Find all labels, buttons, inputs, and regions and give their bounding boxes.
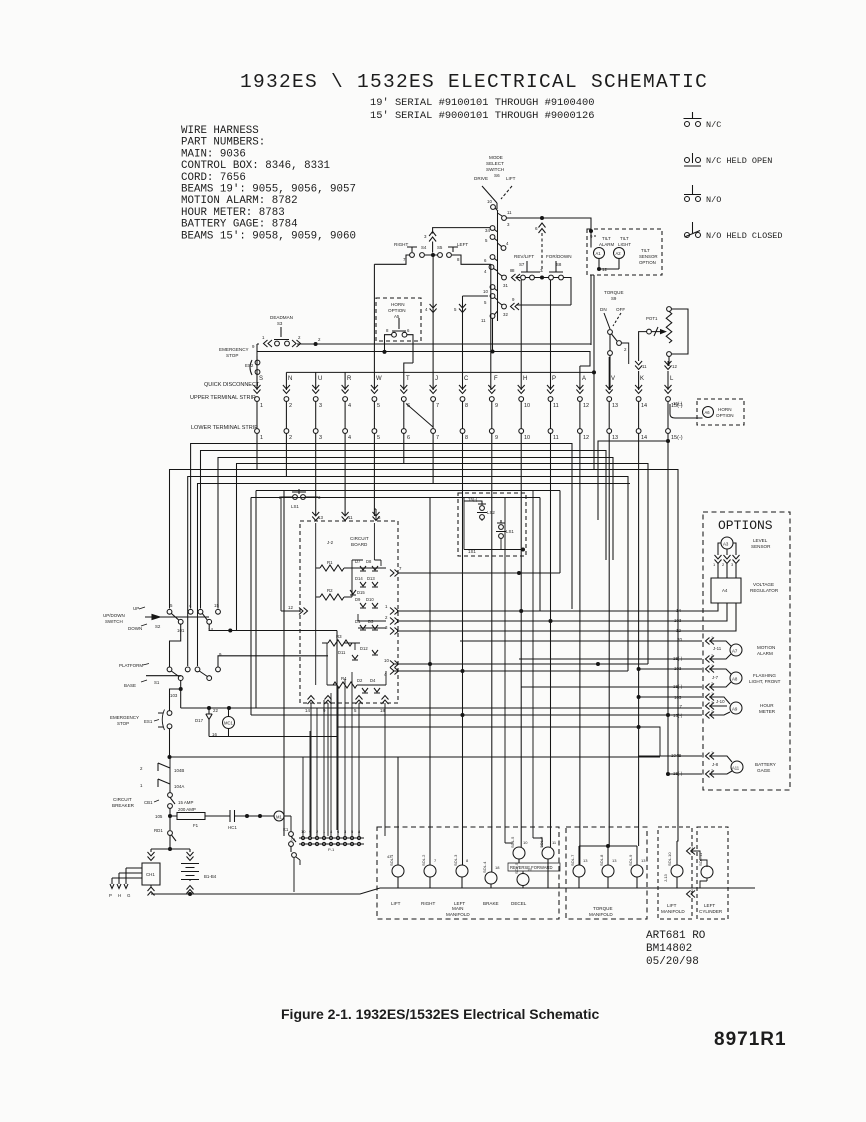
svg-text:FOR/DOWN: FOR/DOWN xyxy=(546,254,572,259)
svg-text:A2: A2 xyxy=(616,251,622,256)
svg-text:103: 103 xyxy=(170,693,178,698)
main manifold box xyxy=(377,827,559,919)
svg-text:4: 4 xyxy=(348,435,351,441)
svg-text:UPPER TERMINAL STRIP: UPPER TERMINAL STRIP xyxy=(190,395,256,401)
svg-text:13: 13 xyxy=(583,858,588,863)
svg-text:15(-): 15(-) xyxy=(671,435,683,441)
svg-text:BOARD: BOARD xyxy=(351,542,368,547)
wire t15 down xyxy=(667,434,669,776)
resistor R3 xyxy=(322,634,360,646)
tilt sensor option box xyxy=(587,229,662,275)
svg-text:BASE: BASE xyxy=(124,683,136,688)
capacitor HC1 xyxy=(228,810,274,830)
diode D15 xyxy=(350,590,365,595)
board bottom pins xyxy=(305,696,389,837)
svg-text:P: P xyxy=(109,893,112,898)
svg-text:D9: D9 xyxy=(355,597,361,602)
resistor R2 xyxy=(316,588,352,600)
svg-text:OFF: OFF xyxy=(616,307,625,312)
legend xyxy=(684,112,783,241)
svg-text:J-7: J-7 xyxy=(712,675,719,680)
svg-text:MC1: MC1 xyxy=(224,721,234,726)
svg-text:11: 11 xyxy=(348,515,353,520)
lower terminal numbers xyxy=(260,435,683,441)
svg-text:ES2: ES2 xyxy=(245,363,254,368)
svg-text:BM14802: BM14802 xyxy=(646,943,692,955)
svg-text:OPTIONS: OPTIONS xyxy=(718,518,773,533)
svg-text:13: 13 xyxy=(641,858,646,863)
svg-text:S: S xyxy=(259,376,263,382)
svg-text:9: 9 xyxy=(495,403,498,409)
svg-text:CYLINDER: CYLINDER xyxy=(699,909,723,914)
svg-text:13: 13 xyxy=(318,515,323,520)
wire t10 down xyxy=(520,434,522,848)
wires above terminals xyxy=(257,255,668,390)
svg-text:104B: 104B xyxy=(671,753,681,758)
svg-text:10: 10 xyxy=(301,829,306,834)
wire harness note xyxy=(181,125,356,242)
reverse forward label xyxy=(508,863,560,871)
svg-text:OPTION: OPTION xyxy=(388,308,406,313)
svg-text:Figure 2-1. 1932ES/1532ES Elec: Figure 2-1. 1932ES/1532ES Electrical Sch… xyxy=(281,1006,600,1022)
mode select fork xyxy=(482,186,497,209)
svg-text:EMERGENCY: EMERGENCY xyxy=(110,715,139,720)
svg-text:T: T xyxy=(406,376,410,382)
wire t14 down xyxy=(638,434,640,847)
svg-text:SENSOR: SENSOR xyxy=(751,544,771,549)
legend N/C symbol xyxy=(684,112,702,127)
board inner wires xyxy=(316,523,386,685)
svg-text:A1: A1 xyxy=(596,251,602,256)
ground return bus xyxy=(151,888,755,894)
solenoid SOL2 xyxy=(421,498,437,907)
svg-text:S6: S6 xyxy=(494,173,500,178)
svg-text:POT1: POT1 xyxy=(646,316,658,321)
wire t2 down to bus xyxy=(188,434,287,667)
solenoid SOL5 decel xyxy=(514,862,532,888)
solenoid SOL5 xyxy=(510,836,528,906)
svg-text:1: 1 xyxy=(260,435,263,441)
svg-text:19' SERIAL #9100101 THROUGH #9: 19' SERIAL #9100101 THROUGH #9100400 xyxy=(370,97,594,109)
wire t6 down to bus xyxy=(237,434,404,631)
wire y477 branch right xyxy=(189,477,628,672)
svg-text:11: 11 xyxy=(553,403,559,409)
charger CH1 xyxy=(109,816,190,898)
svg-text:J-13: J-13 xyxy=(663,873,668,882)
svg-text:D14: D14 xyxy=(355,576,363,581)
svg-text:M1: M1 xyxy=(276,815,282,820)
board top pins xyxy=(312,512,319,521)
motion alarm A7 xyxy=(460,635,775,663)
wire t4 down to bus xyxy=(201,434,346,609)
svg-text:LIGHT: LIGHT xyxy=(618,242,631,247)
svg-text:TILT: TILT xyxy=(620,236,629,241)
S6 contact numbers xyxy=(481,199,515,323)
wire y469 to x678 xyxy=(170,470,679,842)
svg-text:13: 13 xyxy=(612,403,618,409)
svg-text:10: 10 xyxy=(524,435,530,441)
solenoid SOL1 xyxy=(387,757,404,906)
svg-text:STOP: STOP xyxy=(226,353,238,358)
lower terminal circles xyxy=(255,429,671,434)
svg-text:SOL.8: SOL.8 xyxy=(599,854,604,866)
svg-text:D12: D12 xyxy=(360,646,368,651)
tilt box drop wires xyxy=(591,275,594,470)
resistor R4 xyxy=(327,676,364,688)
svg-text:FLASHING: FLASHING xyxy=(753,673,776,678)
svg-text:8: 8 xyxy=(465,435,468,441)
wire x284 drop xyxy=(283,491,285,837)
wire bus lower left xyxy=(251,491,560,716)
svg-text:12: 12 xyxy=(672,364,677,369)
fuse F1 xyxy=(155,807,230,828)
bus wires xyxy=(170,304,679,872)
svg-text:R2: R2 xyxy=(327,588,333,593)
svg-text:ART681 RO: ART681 RO xyxy=(646,930,706,942)
footer xyxy=(281,930,787,1050)
svg-text:A7: A7 xyxy=(732,649,738,654)
svg-text:CONTROL BOX: 8346, 8331: CONTROL BOX: 8346, 8331 xyxy=(181,160,330,172)
svg-text:W: W xyxy=(376,376,382,382)
svg-text:U: U xyxy=(318,376,322,382)
main feed wire xyxy=(168,756,660,758)
svg-text:S4: S4 xyxy=(421,245,427,250)
svg-text:SOL.11: SOL.11 xyxy=(698,852,703,866)
svg-text:12: 12 xyxy=(288,605,293,610)
svg-text:LEFT: LEFT xyxy=(454,901,465,906)
svg-text:LEFT: LEFT xyxy=(457,242,468,247)
flashing light front A8 xyxy=(521,663,781,691)
svg-text:S8: S8 xyxy=(556,262,562,267)
svg-text:D13: D13 xyxy=(367,576,375,581)
solenoid SOL10 xyxy=(663,841,707,898)
svg-text:14: 14 xyxy=(641,435,647,441)
svg-text:3: 3 xyxy=(319,435,322,441)
svg-text:R4: R4 xyxy=(341,676,347,681)
wire t9 down xyxy=(491,434,493,873)
svg-text:34: 34 xyxy=(485,228,490,233)
K1 ground lead xyxy=(293,858,295,892)
svg-text:D15: D15 xyxy=(357,590,365,595)
svg-text:HORN: HORN xyxy=(718,407,732,412)
svg-text:J-1: J-1 xyxy=(290,837,296,842)
svg-text:P: P xyxy=(552,376,556,382)
up/down switch S2 xyxy=(103,603,337,830)
svg-text:14: 14 xyxy=(641,403,647,409)
svg-text:4: 4 xyxy=(348,403,351,409)
interstrip wires xyxy=(257,402,668,429)
wire t7 down to bus xyxy=(198,434,434,667)
jumper wire t6 to t7 xyxy=(406,404,433,428)
battery B1-B4 xyxy=(181,852,217,896)
svg-text:LS2: LS2 xyxy=(487,510,495,515)
svg-text:MANIFOLD: MANIFOLD xyxy=(661,909,685,914)
svg-text:15(-): 15(-) xyxy=(673,713,683,718)
svg-text:MODE: MODE xyxy=(489,155,503,160)
chevron in 12 xyxy=(281,497,308,615)
svg-text:16: 16 xyxy=(212,732,217,737)
upper terminal circles xyxy=(255,397,671,402)
svg-text:14: 14 xyxy=(305,708,310,713)
svg-text:15(-): 15(-) xyxy=(673,684,683,689)
legend N/O symbol xyxy=(684,185,701,202)
svg-text:MAIN: MAIN xyxy=(452,906,463,911)
svg-text:N/O HELD CLOSED: N/O HELD CLOSED xyxy=(706,231,783,241)
horn option A6 box xyxy=(670,399,744,425)
svg-text:P-1: P-1 xyxy=(328,847,335,852)
svg-text:104A: 104A xyxy=(174,784,184,789)
vertical feeds to board top xyxy=(316,444,375,517)
lift manifold box xyxy=(658,827,692,919)
svg-text:SWITCH: SWITCH xyxy=(105,619,123,624)
svg-text:10: 10 xyxy=(384,658,389,663)
svg-text:S2: S2 xyxy=(155,624,161,629)
svg-text:CORD: 7656: CORD: 7656 xyxy=(181,172,246,184)
emergency stop ES2 xyxy=(219,344,590,390)
svg-text:N/C HELD OPEN: N/C HELD OPEN xyxy=(706,156,772,166)
svg-text:CH1: CH1 xyxy=(146,872,155,877)
right left switch S4 S5 xyxy=(374,228,490,265)
svg-text:BREAKER: BREAKER xyxy=(112,803,135,808)
svg-text:SOL.5: SOL.5 xyxy=(510,836,515,848)
title xyxy=(240,71,708,93)
svg-text:103: 103 xyxy=(674,695,682,700)
svg-text:GAGE: GAGE xyxy=(757,768,770,773)
svg-text:H: H xyxy=(118,893,121,898)
svg-text:15(-): 15(-) xyxy=(673,656,683,661)
svg-text:18: 18 xyxy=(495,865,500,870)
svg-text:G: G xyxy=(127,893,131,898)
svg-text:11: 11 xyxy=(507,210,512,215)
serial note xyxy=(370,97,594,122)
svg-text:13: 13 xyxy=(612,858,617,863)
svg-text:LS1: LS1 xyxy=(506,529,514,534)
svg-text:UP: UP xyxy=(133,606,139,611)
platform base switch S1 xyxy=(119,652,328,711)
level sensor A3 xyxy=(713,537,771,578)
svg-text:HOUR: HOUR xyxy=(760,703,774,708)
svg-text:2: 2 xyxy=(289,435,292,441)
svg-text:RIGHT: RIGHT xyxy=(394,242,408,247)
manifold feed wires xyxy=(505,491,542,848)
wire t3 down to bus xyxy=(191,434,316,609)
svg-text:32: 32 xyxy=(503,312,508,317)
S8 loop to 32 xyxy=(516,278,571,306)
wire t12 down xyxy=(579,434,581,866)
svg-text:BEAMS 19': 9055, 9056, 9057: BEAMS 19': 9055, 9056, 9057 xyxy=(181,184,356,196)
svg-text:LIFT: LIFT xyxy=(506,176,516,181)
svg-text:A6: A6 xyxy=(705,410,711,415)
svg-text:11: 11 xyxy=(642,364,647,369)
solenoid SOL9 xyxy=(628,846,646,888)
diodes D1 D3 xyxy=(355,619,378,630)
svg-text:SOL.2: SOL.2 xyxy=(421,854,426,866)
svg-text:PART NUMBERS:: PART NUMBERS: xyxy=(181,137,265,149)
svg-text:S7: S7 xyxy=(519,262,525,267)
legend N/O held closed symbol xyxy=(685,222,701,238)
svg-text:LEVEL: LEVEL xyxy=(753,538,768,543)
wire t13 down xyxy=(608,434,610,847)
diode D17 and MC1 rails xyxy=(181,707,337,738)
torque switch S9 xyxy=(600,290,629,390)
svg-text:TORQUE: TORQUE xyxy=(593,906,613,911)
svg-text:WIRE HARNESS: WIRE HARNESS xyxy=(181,125,259,137)
solenoid SOL6 xyxy=(539,836,557,888)
svg-text:15: 15 xyxy=(214,603,219,608)
connector 104B 104A xyxy=(140,763,184,789)
svg-text:K1: K1 xyxy=(283,827,289,832)
torque manifold top rail xyxy=(579,845,637,847)
wire y450 branch right xyxy=(201,451,607,561)
svg-text:8971R1: 8971R1 xyxy=(714,1029,787,1050)
svg-text:15' SERIAL #9000101 THROUGH #9: 15' SERIAL #9000101 THROUGH #9000126 xyxy=(370,110,594,122)
svg-text:LEFT: LEFT xyxy=(704,903,715,908)
left cylinder box xyxy=(697,827,728,919)
svg-text:H: H xyxy=(523,376,527,382)
svg-text:10: 10 xyxy=(523,840,528,845)
svg-text:BEAMS 15': 9058, 9059, 9060: BEAMS 15': 9058, 9059, 9060 xyxy=(181,230,356,242)
svg-text:A8: A8 xyxy=(732,677,738,682)
svg-text:103: 103 xyxy=(674,618,682,623)
svg-text:D17: D17 xyxy=(195,718,204,723)
diodes D14 D13 xyxy=(355,576,378,587)
svg-text:N/O: N/O xyxy=(706,195,721,205)
upper terminal chevrons xyxy=(254,385,672,394)
svg-text:HC1: HC1 xyxy=(228,825,237,830)
chevron 5 on t8 xyxy=(459,304,466,313)
svg-text:SOL.7: SOL.7 xyxy=(570,854,575,866)
left switches xyxy=(103,603,337,830)
svg-text:DN: DN xyxy=(600,307,607,312)
terminal letters row xyxy=(259,376,674,382)
svg-text:LS1: LS1 xyxy=(291,504,299,509)
chevrons out 10 4 xyxy=(384,658,648,677)
svg-text:D3: D3 xyxy=(368,619,374,624)
svg-text:N: N xyxy=(288,376,292,382)
diodes D7 D8 xyxy=(355,559,378,571)
svg-text:5: 5 xyxy=(377,435,380,441)
svg-text:RD1: RD1 xyxy=(154,828,163,833)
svg-text:S9: S9 xyxy=(611,296,617,301)
svg-text:J-2: J-2 xyxy=(327,540,334,545)
svg-text:METER: METER xyxy=(759,709,776,714)
top switches xyxy=(219,155,744,470)
S6 contact chain xyxy=(489,205,506,321)
svg-text:HOUR METER: 8783: HOUR METER: 8783 xyxy=(181,207,285,219)
S4 S5 leads xyxy=(374,255,490,264)
svg-text:MOTION ALARM: 8782: MOTION ALARM: 8782 xyxy=(181,195,298,207)
svg-text:F: F xyxy=(494,376,498,382)
svg-text:C: C xyxy=(464,376,469,382)
svg-text:SELECT: SELECT xyxy=(486,161,504,166)
svg-text:REGULATOR: REGULATOR xyxy=(750,588,779,593)
svg-text:D2: D2 xyxy=(357,678,363,683)
chevron 4 on t7 xyxy=(430,304,437,313)
circuit board box xyxy=(300,521,398,703)
svg-text:STOP: STOP xyxy=(117,721,129,726)
svg-text:VOLTAGE: VOLTAGE xyxy=(753,582,774,587)
svg-text:N/C: N/C xyxy=(706,120,721,130)
svg-text:12: 12 xyxy=(676,628,681,633)
wire t8 down xyxy=(462,434,464,866)
svg-text:J-8: J-8 xyxy=(712,762,719,767)
svg-text:11: 11 xyxy=(481,318,486,323)
svg-text:CIRCUIT: CIRCUIT xyxy=(350,536,369,541)
svg-text:SOL.3: SOL.3 xyxy=(453,854,458,866)
wire t1 down to bus xyxy=(170,434,258,609)
svg-text:B1-B4: B1-B4 xyxy=(204,874,217,879)
chevron 6 dashed xyxy=(539,223,546,233)
svg-text:SOL.9: SOL.9 xyxy=(628,854,633,866)
chevrons 11 12 xyxy=(635,361,677,370)
solenoid SOL11 xyxy=(698,852,713,878)
chain bottom lead xyxy=(492,318,494,351)
svg-text:15 AMP: 15 AMP xyxy=(178,800,193,805)
svg-text:10: 10 xyxy=(524,403,530,409)
svg-text:OPTION: OPTION xyxy=(716,413,734,418)
svg-text:ALARM: ALARM xyxy=(757,651,773,656)
svg-text:J: J xyxy=(435,376,438,382)
circuit breaker CB1 xyxy=(112,790,193,816)
svg-text:D10: D10 xyxy=(366,597,374,602)
diodes D2 D4 xyxy=(357,678,380,693)
options box outline xyxy=(703,512,790,790)
svg-text:CB1: CB1 xyxy=(144,800,153,805)
svg-text:LIFT: LIFT xyxy=(391,901,401,906)
chevrons out 1 2 3 xyxy=(385,604,552,635)
svg-text:A11: A11 xyxy=(732,766,740,771)
svg-text:D11: D11 xyxy=(338,650,346,655)
options box xyxy=(251,512,790,790)
svg-text:BRAKE: BRAKE xyxy=(483,901,499,906)
svg-text:A4: A4 xyxy=(722,588,728,593)
svg-text:12: 12 xyxy=(583,403,589,409)
legend N/C held open symbol xyxy=(684,153,701,166)
svg-text:MOTION: MOTION xyxy=(757,645,775,650)
rev/lift for/down switches xyxy=(493,254,572,352)
svg-text:9: 9 xyxy=(495,435,498,441)
svg-text:DEADMAN: DEADMAN xyxy=(270,315,293,320)
svg-text:QUICK DISCONNECT: QUICK DISCONNECT xyxy=(204,382,260,388)
diodes D9 D10 xyxy=(355,597,378,608)
svg-text:7: 7 xyxy=(436,403,439,409)
svg-text:TILT: TILT xyxy=(602,236,611,241)
svg-text:UP/DOWN: UP/DOWN xyxy=(103,613,125,618)
svg-text:MAIN: 9036: MAIN: 9036 xyxy=(181,148,246,160)
svg-text:K: K xyxy=(640,376,644,382)
svg-text:8: 8 xyxy=(465,403,468,409)
circuit board xyxy=(279,489,648,836)
svg-text:10: 10 xyxy=(483,289,488,294)
solenoid SOL3 xyxy=(453,854,469,906)
svg-text:MANIFOLD: MANIFOLD xyxy=(446,912,470,917)
svg-text:05/20/98: 05/20/98 xyxy=(646,956,699,968)
resistor R1 xyxy=(316,560,352,571)
hour meter A9 xyxy=(251,691,776,719)
pot1 xyxy=(639,307,688,366)
power bottom left xyxy=(109,672,755,898)
svg-text:10: 10 xyxy=(487,199,492,204)
svg-text:2: 2 xyxy=(289,403,292,409)
svg-text:REVERSE FORWARD: REVERSE FORWARD xyxy=(510,865,553,870)
svg-text:REV/LIFT: REV/LIFT xyxy=(514,254,534,259)
svg-text:LOWER TERMINAL STRIP: LOWER TERMINAL STRIP xyxy=(191,425,258,431)
svg-text:14: 14 xyxy=(676,608,681,613)
battery gage A11 xyxy=(337,726,776,778)
mode select switch S6 label xyxy=(474,155,516,181)
svg-text:31: 31 xyxy=(503,283,508,288)
svg-text:SOL.4: SOL.4 xyxy=(482,861,487,873)
